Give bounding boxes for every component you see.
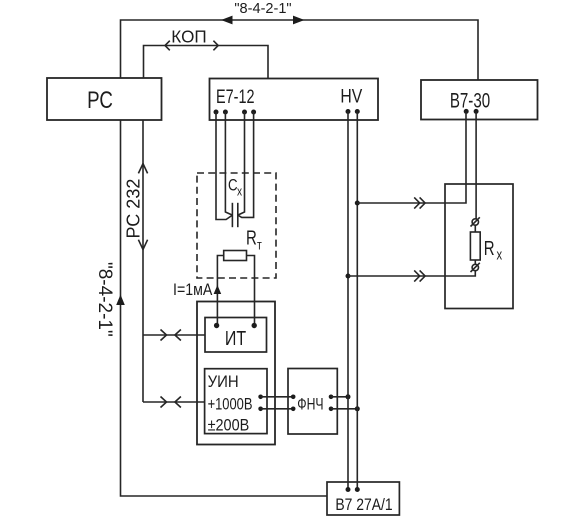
wire FNCh to HV left line xyxy=(331,396,348,398)
arrowhead left on top bus xyxy=(221,16,233,25)
Rx lead top xyxy=(474,225,476,232)
capacitor Cx right outer wire xyxy=(238,112,254,217)
svg-text:С: С xyxy=(228,176,238,195)
block B7-30 xyxy=(421,80,538,120)
svg-text:В7-30: В7-30 xyxy=(450,88,490,112)
svg-text:РС 232: РС 232 xyxy=(124,179,144,239)
current arrow on IT left wire xyxy=(214,285,222,294)
svg-text:R: R xyxy=(246,226,257,249)
block FNCh xyxy=(288,369,337,435)
wire HV right vertical xyxy=(356,112,358,490)
arrowhead right on top bus xyxy=(293,16,305,25)
wire PC left vertical 8-4-2-1 down to bottom bus xyxy=(121,120,328,496)
terminal dots B7-30 xyxy=(464,109,469,114)
wire branch to UIN xyxy=(143,401,205,403)
svg-text:х: х xyxy=(497,246,503,263)
resistor Rт body xyxy=(224,251,247,261)
Rx lead bottom xyxy=(474,260,476,264)
wire HV left vertical xyxy=(347,112,349,490)
Rx bottom probe circle xyxy=(472,264,478,270)
terminal dots FNCh right xyxy=(329,395,334,400)
svg-text:"8-4-2-1": "8-4-2-1" xyxy=(234,1,291,17)
capacitor Cx right inner wire xyxy=(238,112,245,215)
Rx top probe slash xyxy=(471,217,480,226)
junction dot on HV left line xyxy=(346,394,351,399)
wire UIN to FNCh lower xyxy=(261,408,294,410)
terminal dots HV xyxy=(346,109,351,114)
chevron left on КОП xyxy=(165,41,170,51)
outer box IT+UIN xyxy=(197,302,275,445)
wire КОП bus xyxy=(144,46,269,79)
svg-text:ИТ: ИТ xyxy=(225,327,246,349)
block B7 27A/1 xyxy=(327,482,399,515)
terminal dots UIN right xyxy=(258,395,263,400)
resistor Rт left lead xyxy=(217,256,223,326)
svg-text:В7 27А/1: В7 27А/1 xyxy=(335,496,392,515)
svg-text:I=1мА: I=1мА xyxy=(173,281,213,299)
terminal dots B7 27A/1 xyxy=(346,487,351,492)
Rx top probe circle xyxy=(472,219,478,225)
chevron right on КОП xyxy=(213,41,218,51)
wire lower branch to Rx xyxy=(348,271,475,276)
capacitor Cx left outer wire xyxy=(216,112,232,220)
chevron pair on UIN branch xyxy=(161,397,167,408)
junction dot HV left branch xyxy=(346,274,351,279)
chevron up on PC232 xyxy=(138,164,147,174)
wire B7-30 right terminal down xyxy=(475,111,477,218)
capacitor Cx plates xyxy=(231,203,233,227)
svg-text:УИН: УИН xyxy=(208,373,239,391)
wire upper branch to Rx xyxy=(357,111,466,203)
Rx resistor body xyxy=(470,232,480,260)
svg-text:"8-4-2-1": "8-4-2-1" xyxy=(94,262,115,337)
svg-text:+1000В: +1000В xyxy=(208,395,253,414)
junction dot HV right branch xyxy=(355,201,360,206)
terminal dots IT xyxy=(214,323,219,328)
Rx bottom probe slash xyxy=(471,263,480,272)
wire UIN to FNCh upper xyxy=(261,396,294,398)
svg-text:±200В: ±200В xyxy=(208,416,250,434)
block IT xyxy=(205,318,267,353)
terminal dots E7-12 xyxy=(214,110,219,115)
box Rx xyxy=(445,184,513,309)
double chevron on upper branch xyxy=(414,197,420,208)
svg-text:т: т xyxy=(257,237,262,253)
wire FNCh to HV right line xyxy=(331,408,357,410)
resistor Rт right lead xyxy=(247,256,255,326)
junction dot on HV right line xyxy=(355,406,360,411)
capacitor Cx left inner wire xyxy=(225,112,232,215)
double chevron on lower branch xyxy=(414,270,420,281)
arrow up on left vertical xyxy=(116,295,125,306)
block PC xyxy=(47,78,162,120)
svg-text:х: х xyxy=(237,184,242,198)
svg-text:Е7-12: Е7-12 xyxy=(216,86,255,107)
wire PC 232 vertical xyxy=(142,120,144,402)
svg-text:РС: РС xyxy=(87,87,113,114)
chevron pair on IT branch xyxy=(161,330,167,341)
chevron down on PC232 xyxy=(138,240,147,250)
terminal dots FNCh left xyxy=(291,395,296,400)
block E7-12 / HV xyxy=(210,79,379,121)
svg-text:HV: HV xyxy=(340,85,362,107)
block UIN xyxy=(205,369,267,434)
wire branch to IT xyxy=(143,334,205,336)
wire top bus 8-4-2-1 xyxy=(121,20,479,80)
svg-text:ФНЧ: ФНЧ xyxy=(297,396,323,414)
svg-text:R: R xyxy=(484,237,495,260)
dashed box around Cx and Rт xyxy=(197,173,276,278)
svg-text:КОП: КОП xyxy=(171,26,206,47)
